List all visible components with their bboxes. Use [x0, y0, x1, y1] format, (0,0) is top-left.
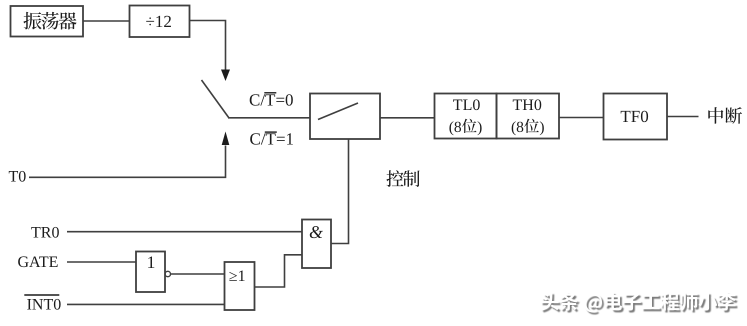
input label INT0 with overline	[24, 295, 61, 314]
svg-text:TL0: TL0	[453, 97, 481, 114]
svg-text:TF0: TF0	[620, 107, 648, 126]
svg-text:GATE: GATE	[18, 254, 59, 271]
svg-text:1: 1	[147, 252, 156, 272]
watermark 头条@电子工程师小李	[541, 292, 738, 314]
switch blade	[202, 80, 230, 118]
inverter gate 1	[136, 252, 165, 293]
svg-text:T0: T0	[9, 169, 27, 186]
svg-text:): )	[539, 119, 544, 136]
label C/T=1	[250, 130, 295, 149]
svg-text:(8: (8	[511, 119, 524, 136]
wire INT0 to OR gate	[67, 303, 225, 305]
wire TH0 to TF0	[559, 117, 604, 119]
register TH0 (8位)	[497, 94, 560, 139]
svg-text:TH0: TH0	[513, 97, 542, 114]
svg-text:÷12: ÷12	[146, 12, 172, 31]
svg-text:&: &	[309, 222, 323, 242]
wire OR gate to AND gate	[255, 255, 303, 287]
divider box ÷12	[130, 6, 190, 38]
control switch box	[310, 94, 380, 140]
wire control box to TL0	[380, 117, 435, 119]
label C/T=0	[249, 90, 294, 109]
wire oscillator to divider	[83, 20, 130, 22]
wire TF0 to interrupt	[667, 116, 699, 118]
svg-text:(8: (8	[449, 119, 462, 136]
wire GATE to inverter	[67, 261, 136, 263]
wire inverter to OR gate	[171, 273, 225, 275]
AND gate &	[302, 220, 331, 269]
label 中断	[708, 107, 742, 124]
inverter output bubble	[165, 271, 170, 276]
label 控制	[386, 170, 419, 187]
wire TR0 to AND gate	[67, 231, 302, 233]
svg-text:≥1: ≥1	[229, 268, 246, 285]
flag box TF0	[604, 94, 668, 140]
svg-text:): )	[477, 119, 482, 136]
wire T0 with up arrow	[29, 132, 229, 178]
wire AND output up to control box	[331, 139, 349, 244]
svg-text:TR0: TR0	[31, 225, 59, 242]
register TL0 (8位)	[435, 94, 497, 139]
wire divider to switch with down arrow	[190, 21, 231, 82]
oscillator box 振荡器	[11, 6, 84, 37]
wire switch blade to control box	[228, 117, 310, 119]
svg-text:INT0: INT0	[27, 297, 62, 314]
OR gate ≥1	[225, 262, 255, 310]
